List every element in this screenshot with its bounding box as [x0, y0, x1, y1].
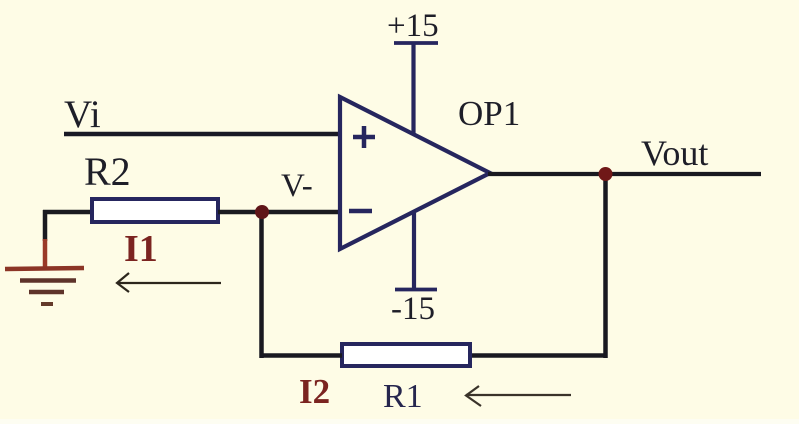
- svg-text:+15: +15: [387, 8, 439, 44]
- op-amp minus input symbol: [349, 209, 372, 214]
- svg-text:Vout: Vout: [641, 133, 708, 173]
- node Vout junction: [599, 167, 613, 181]
- svg-text:-15: -15: [391, 291, 435, 327]
- wire ground to R2: [43, 210, 94, 215]
- op-amp OP1: [340, 97, 490, 249]
- wire feedback bottom left segment: [260, 353, 343, 358]
- +15 supply bar: [394, 41, 438, 45]
- svg-text:R2: R2: [84, 149, 131, 194]
- svg-text:OP1: OP1: [458, 94, 520, 133]
- resistor R1: [342, 344, 470, 366]
- -15 supply wire: [412, 213, 416, 290]
- svg-text:Vi: Vi: [64, 93, 101, 136]
- svg-text:I2: I2: [299, 372, 330, 411]
- svg-text:R1: R1: [383, 378, 423, 415]
- svg-text:V-: V-: [281, 168, 313, 204]
- svg-text:I1: I1: [124, 228, 158, 270]
- op-amp plus input symbol: [353, 126, 375, 148]
- wire Vi input: [64, 132, 340, 137]
- resistor R2: [92, 199, 218, 222]
- ground: [5, 210, 84, 304]
- wire op-amp output: [488, 172, 761, 176]
- +15 supply wire: [411, 42, 415, 134]
- current arrow I1: [117, 273, 221, 292]
- wire R2 to node V-: [218, 210, 264, 215]
- node V- junction: [255, 205, 269, 219]
- -15 supply bar: [395, 288, 437, 292]
- wire feedback right vertical: [603, 174, 608, 358]
- wire feedback bottom right segment: [470, 353, 608, 358]
- current arrow I2: [466, 386, 571, 406]
- wire feedback left vertical: [259, 212, 264, 358]
- wire node V- to inverting input: [262, 210, 340, 215]
